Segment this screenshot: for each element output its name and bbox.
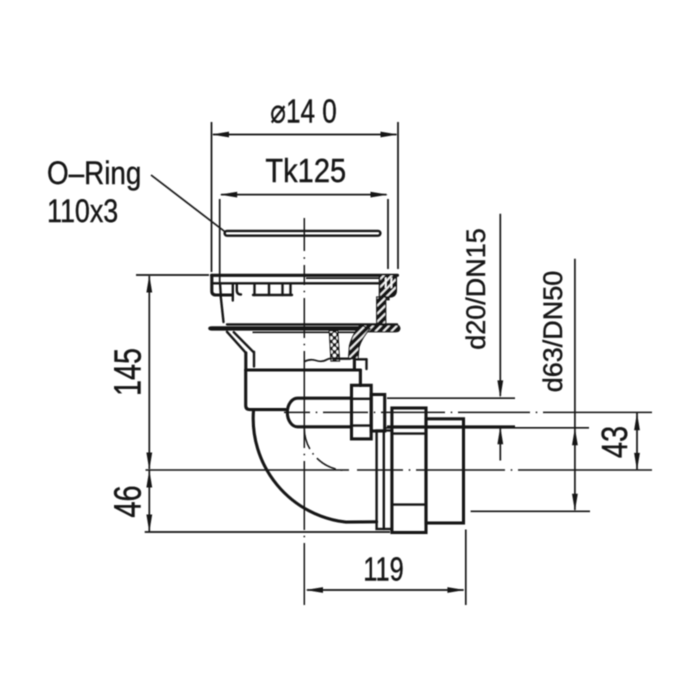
socket inner bore lines bbox=[392, 432, 426, 434]
svg-text:110x3: 110x3 bbox=[47, 194, 118, 230]
screw tip bbox=[386, 297, 389, 300]
backing ring bbox=[377, 431, 392, 530]
extension line d20 top bbox=[387, 397, 515, 399]
funnel outer wall left below brim bbox=[227, 332, 246, 353]
break (wavy) line bbox=[304, 358, 333, 361]
union nut bbox=[352, 385, 372, 439]
funnel neck left outer edge bbox=[244, 353, 247, 370]
brim underside line right bbox=[253, 331, 363, 333]
svg-text:145: 145 bbox=[108, 348, 150, 396]
leader line d20 with arrows bbox=[499, 214, 501, 396]
horizontal centerline main pipe bbox=[146, 469, 350, 471]
cup wall left (elevation) bbox=[220, 295, 222, 297]
svg-text:d63/DN50: d63/DN50 bbox=[538, 271, 568, 393]
dimension line 119 bbox=[307, 589, 464, 591]
extension line d20 bottom / d63 top bbox=[387, 425, 515, 427]
top face of flange assembly bbox=[212, 274, 398, 277]
svg-text:O–Ring: O–Ring bbox=[47, 156, 141, 191]
svg-text:46: 46 bbox=[107, 485, 150, 517]
cup wall section (hatched) bbox=[377, 297, 386, 325]
grate slots bottom line bbox=[253, 294, 292, 296]
centerline d20 pipe (extends right as 43 reference) bbox=[284, 411, 310, 413]
body left edge with round corner bbox=[246, 370, 286, 410]
funnel cone wall section (hatched) bbox=[349, 325, 371, 359]
extension line ø140 right bbox=[397, 122, 399, 269]
funnel interior bottom line bbox=[337, 358, 350, 360]
extension line 145 top bbox=[136, 274, 209, 276]
O-ring seal (side view capsule) bbox=[225, 231, 381, 236]
dimension line 46 bbox=[148, 470, 150, 532]
funnel inner wall left bbox=[234, 332, 253, 352]
leader line d63 with arrows bbox=[574, 259, 576, 510]
leader line O-Ring bbox=[151, 175, 226, 233]
screw slot highlights bbox=[385, 278, 387, 289]
partition wall section (dotted) bbox=[329, 331, 339, 361]
flange brim top line bbox=[227, 323, 397, 325]
gland sleeve bbox=[371, 395, 385, 432]
extension line 119 right bbox=[465, 530, 467, 606]
bend centerline arc of elbow bbox=[304, 428, 347, 471]
vertical centerline drain axis bbox=[303, 218, 305, 251]
svg-text:43: 43 bbox=[594, 426, 635, 458]
union nut facet lines bbox=[352, 398, 372, 400]
grate band top line bbox=[212, 282, 380, 284]
dimension line 145 bbox=[148, 276, 150, 469]
svg-text:Tk125: Tk125 bbox=[265, 152, 346, 189]
svg-text:119: 119 bbox=[363, 551, 403, 588]
clamping ring section (hatched) with screw bbox=[380, 275, 397, 297]
extension line Tk125 left bbox=[219, 199, 221, 283]
grate slot verticals bbox=[232, 284, 234, 301]
rim left edge bbox=[212, 275, 233, 295]
extension line Tk125 right bbox=[387, 199, 389, 269]
elbow outer wall bbox=[253, 411, 376, 523]
body right edge bbox=[359, 370, 362, 386]
funnel neck left inner edge bbox=[253, 352, 255, 367]
dimension line Tk125 bbox=[221, 194, 387, 196]
spigot pipe end bbox=[426, 419, 464, 523]
dimension line ø140 bbox=[213, 134, 397, 136]
funnel outlet right edges bbox=[357, 358, 367, 360]
inner top line (section side) bbox=[306, 277, 380, 279]
extension line 46 bottom bbox=[145, 531, 390, 533]
d20 sensor pipe (bullet) bbox=[287, 398, 351, 427]
extension line d63 bottom bbox=[471, 510, 590, 512]
svg-text:d20/DN15: d20/DN15 bbox=[461, 228, 491, 350]
backing ring inner line bbox=[383, 431, 385, 530]
socket coupling bbox=[392, 408, 426, 533]
dimension line 43 bbox=[636, 413, 638, 471]
svg-text:⌀14 0: ⌀14 0 bbox=[270, 94, 336, 131]
body block top bbox=[246, 368, 361, 371]
brim hatched right portion bbox=[362, 325, 400, 332]
flange brim (thick underside plate) bbox=[208, 326, 400, 330]
extension line ø140 left bbox=[211, 122, 213, 272]
